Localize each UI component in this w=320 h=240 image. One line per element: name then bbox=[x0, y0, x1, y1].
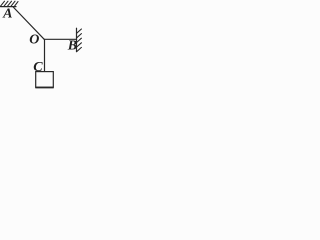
svg-text:A: A bbox=[2, 7, 12, 22]
ceiling line bbox=[1, 6, 17, 8]
ceiling hatch 5 bbox=[15, 2, 19, 7]
ceiling hatch 2 bbox=[4, 1, 8, 6]
wall hatch 1 bbox=[77, 29, 82, 33]
rope O-B horizontal bbox=[44, 38, 76, 40]
rope A-O diagonal bbox=[13, 7, 44, 39]
wall hatch 4 bbox=[77, 43, 82, 47]
block C bottom shadow bbox=[35, 87, 53, 89]
svg-text:C: C bbox=[33, 60, 43, 75]
svg-text:B: B bbox=[67, 39, 77, 54]
wall hatch 2 bbox=[77, 34, 82, 38]
svg-text:O: O bbox=[29, 32, 39, 47]
wall hatch 3 bbox=[77, 38, 82, 42]
ceiling hatch 4 bbox=[11, 1, 15, 6]
rope O-C vertical bbox=[44, 39, 46, 71]
wall line bbox=[76, 28, 78, 51]
ceiling hatch 3 bbox=[8, 1, 12, 6]
ceiling hatch 1 bbox=[1, 1, 5, 6]
wall hatch 5 bbox=[77, 47, 82, 51]
block C square bbox=[36, 72, 54, 88]
